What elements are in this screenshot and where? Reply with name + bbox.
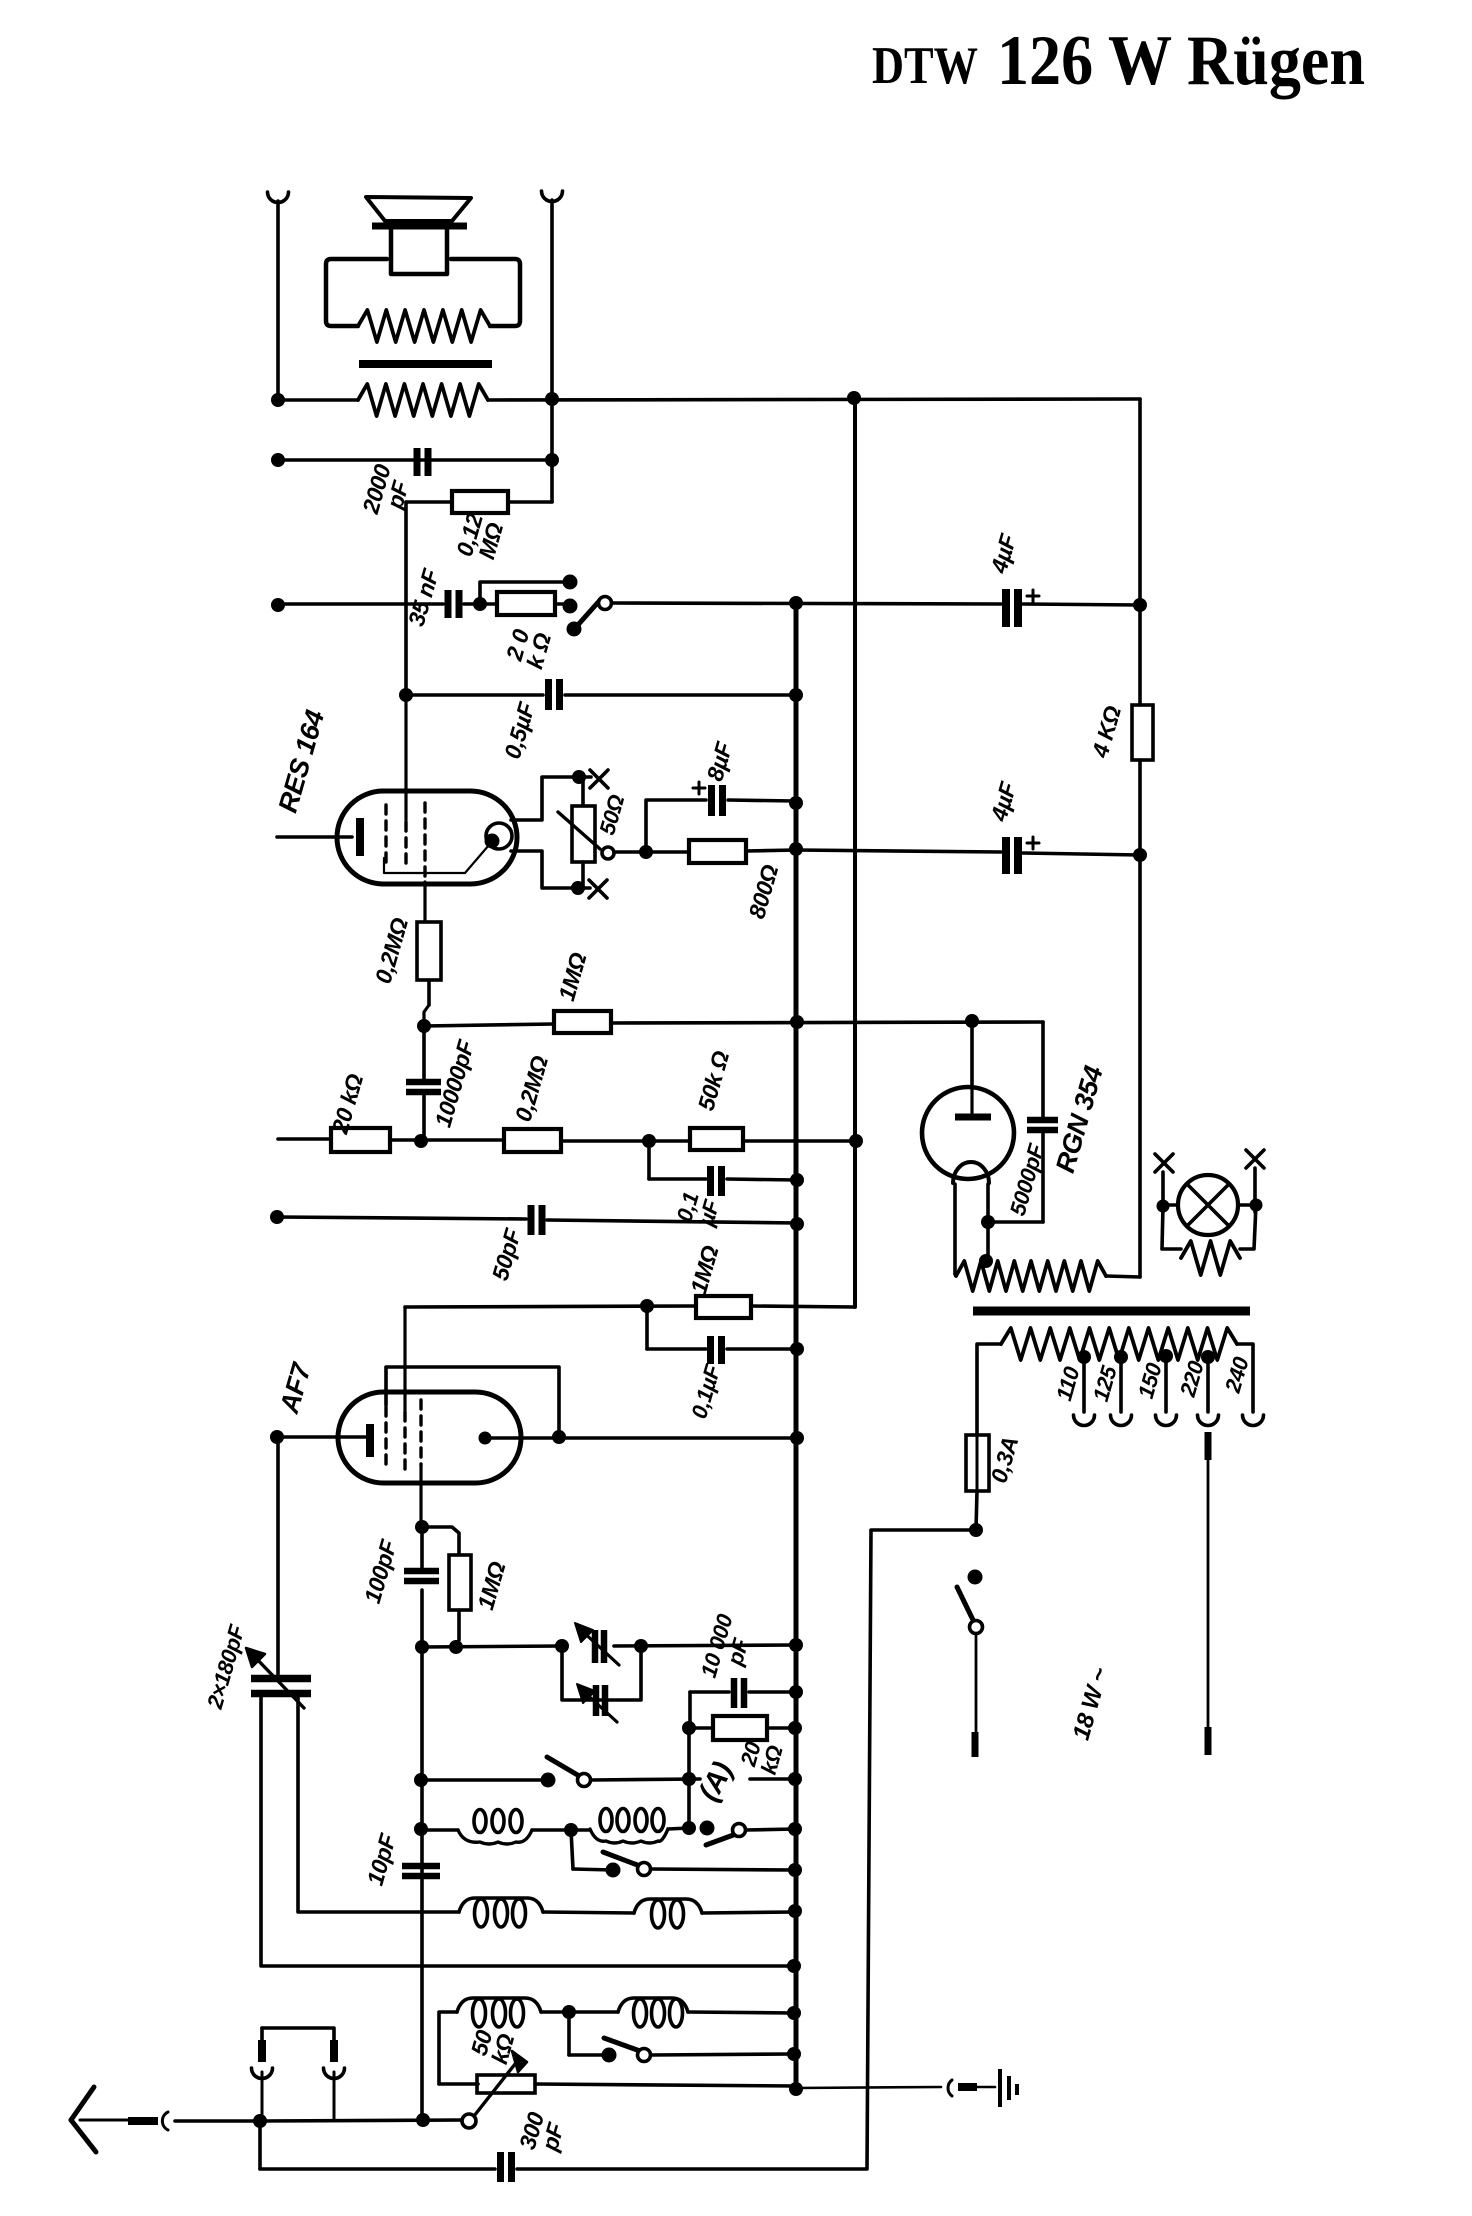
node L2 [552, 1430, 566, 1444]
trimmer capacitor C-osc1 [575, 1623, 619, 1665]
wire osc row [422, 1645, 796, 1647]
label 300pF [514, 2109, 570, 2158]
wire bypass [480, 582, 563, 604]
label 150 [1133, 1359, 1167, 1401]
jack (A) [693, 1757, 739, 1806]
x-mark lamp right [1246, 1150, 1264, 1168]
tube RGN354 [922, 1087, 1014, 1179]
node G4 [1133, 848, 1147, 862]
coil L5 [457, 1998, 541, 2027]
label 0.5uF [499, 699, 540, 762]
tap 220 [1198, 1350, 1219, 1426]
trimmer loop [562, 1646, 641, 1700]
resistor 1MOhm cathode [422, 1527, 471, 1647]
node U1 [969, 1523, 983, 1537]
label 20kOhm avc [326, 1071, 368, 1138]
wire wiper to cathode net [614, 850, 689, 854]
label 2x180pF [202, 1622, 250, 1713]
label 10000pF feedback [696, 1610, 759, 1686]
node G1 [639, 845, 653, 859]
wire feedback left leg [688, 1692, 692, 1728]
node M1 [415, 1520, 429, 1534]
wire B plus riser [853, 398, 857, 1307]
node C1 [271, 598, 285, 612]
node Q3 [787, 2047, 801, 2061]
transformer primary winding [358, 310, 490, 342]
wire avc row [278, 1139, 856, 1141]
label 50Ohm [594, 792, 629, 838]
node L3 [790, 1431, 804, 1445]
wire pickup row [421, 1779, 795, 1780]
contact D2 [563, 599, 578, 614]
label 2000pF [357, 461, 417, 523]
wire antenna row [260, 2120, 462, 2121]
wire 0.5uF row [406, 693, 796, 697]
RES164 filament link [384, 845, 489, 873]
label 125 [1088, 1362, 1122, 1404]
label AF7 [274, 1358, 317, 1417]
potentiometer 50Ohm hum [558, 777, 614, 888]
wire tone to bus [612, 603, 1001, 604]
label 4uF upper [985, 530, 1039, 602]
transformer core [359, 360, 492, 368]
capacitor 2000pF [417, 448, 428, 476]
RES164 anode dot [485, 834, 500, 849]
node O3 [682, 1821, 696, 1835]
wire band row [421, 1828, 795, 1830]
earth plug [948, 2080, 995, 2096]
lamp shunt resistor [1162, 1205, 1256, 1275]
label 220 [1175, 1357, 1209, 1400]
label 800Ohm [743, 862, 783, 922]
label 240 [1220, 1353, 1254, 1396]
node F2 [571, 881, 585, 895]
trimmer capacitor C-osc2 [577, 1684, 617, 1722]
switch S2 pickup [541, 1757, 591, 1788]
switch S4 tap [603, 1852, 795, 1878]
output transformer box [326, 259, 520, 326]
resistor 4kOhm [1132, 705, 1153, 760]
label 50pF [487, 1225, 527, 1283]
AF7 grid2 lead [403, 1307, 406, 1470]
wire RES164 filament top [511, 777, 591, 820]
phone jack right [262, 2028, 345, 2120]
label 0.1uF second [686, 1361, 725, 1421]
resistor 800Ohm [689, 840, 796, 863]
node V1 [1157, 1200, 1170, 1213]
resistor 1MOhm grid leak [696, 1296, 751, 1318]
resistor 20kOhm feedback [689, 1716, 795, 1740]
node O5 [788, 1863, 802, 1877]
RES164 grid1 dashed [384, 805, 387, 866]
potentiometer 50kOhm regen [439, 2051, 795, 2128]
wire tone row [278, 602, 480, 606]
label 0.12MOhm [451, 510, 509, 565]
label 50kOhm regen [465, 2025, 519, 2067]
capacitor 35nF [448, 590, 459, 618]
wire ground row [261, 1697, 794, 1966]
capacitor 0.1uF second [647, 1306, 797, 1364]
node A1 [271, 393, 285, 407]
node O1 [414, 1822, 428, 1836]
node N2 [682, 1772, 696, 1786]
contact D1 [563, 575, 578, 590]
node J1 [270, 1210, 284, 1224]
switch S6 mains [957, 1570, 983, 1634]
node H2 [790, 1015, 804, 1029]
node G3 [789, 842, 803, 856]
title DTW 126 W Ruegen [872, 22, 1365, 100]
label 110 [1051, 1363, 1085, 1403]
node O4 [788, 1822, 802, 1836]
label 0.1uF first [672, 1189, 725, 1230]
RES164 cathode [277, 818, 360, 856]
resistor 0.2MOhm g3 [417, 922, 441, 1026]
wire det coil row [439, 2012, 794, 2084]
node B1 [271, 453, 285, 467]
dial lamp [1169, 1175, 1250, 1235]
wire 1M row [424, 1022, 1043, 1026]
x-mark lamp left [1155, 1154, 1173, 1172]
node B2 [545, 453, 559, 467]
node Q1 [562, 2005, 576, 2019]
field coil / secondary winding [358, 384, 488, 416]
ground symbol [1000, 2069, 1017, 2107]
coil L4 [634, 1899, 702, 1928]
node I2 [642, 1134, 656, 1148]
tube AF7 envelope [338, 1392, 521, 1483]
svg-text:DTW: DTW [872, 37, 978, 95]
node F1 [572, 770, 586, 784]
node A2 [545, 392, 559, 406]
node N3 [788, 1772, 802, 1786]
node T3 [981, 1215, 995, 1229]
label 1MOhm coupling [553, 949, 591, 1003]
lamp leads upper [1163, 1168, 1255, 1212]
resistor 0.2MOhm avc [504, 1129, 561, 1152]
capacitor 0.5uF [549, 679, 560, 710]
wire A link vertical [687, 1728, 691, 1828]
RES164 grid3 dashed [423, 803, 426, 922]
AF7 grid bracket [386, 1367, 559, 1470]
coil L6 [618, 1998, 688, 2027]
node M4 [555, 1639, 569, 1653]
node E1 [399, 688, 413, 702]
capacitor 4uF upper [1006, 589, 1018, 627]
tap 150 [1156, 1349, 1177, 1426]
node N1 [414, 1773, 428, 1787]
wire tap drop [571, 1830, 613, 1870]
wire ant coil row [298, 1697, 795, 1913]
fuse 0.3A [966, 1435, 989, 1530]
label 4uF lower [985, 778, 1039, 849]
label 10pF [362, 1830, 402, 1888]
terminal T1 (speaker left) [268, 192, 289, 400]
label 50kOhm [693, 1048, 735, 1114]
AF7 anode [479, 1432, 798, 1445]
node E2 [789, 688, 803, 702]
wire earth link [796, 2087, 941, 2088]
switch S3 band [700, 1821, 746, 1846]
wire right rail [1138, 399, 1142, 1277]
node S2 [416, 2113, 430, 2127]
resistor 20kOhm tone [480, 592, 563, 615]
node C2 [473, 597, 487, 611]
RGN354 filament leads [955, 1184, 988, 1274]
resistor 50kOhm [690, 1128, 743, 1150]
tap 110 [1074, 1350, 1095, 1426]
AF7 cathode [277, 1424, 370, 1457]
node C4 [1133, 598, 1147, 612]
variable capacitor 2x180pF [246, 1439, 311, 1708]
coil L3 [459, 1898, 543, 1927]
wire 4uF to rail [1023, 604, 1140, 605]
mains pin right [1205, 1432, 1212, 1755]
label 4kOhm [1086, 703, 1126, 761]
RGN354 filament arc [953, 1162, 989, 1183]
node G2 [789, 796, 803, 810]
label 100pF [359, 1536, 402, 1606]
speaker LS [366, 197, 471, 274]
label 18W [1068, 1664, 1114, 1743]
node Q2 [787, 2006, 801, 2020]
x-mark F1 [590, 770, 608, 788]
node P2 [787, 1959, 801, 1973]
node K1 [640, 1299, 654, 1313]
wire det tap drop [569, 2012, 609, 2055]
resistor 0.12MOhm [452, 491, 508, 513]
node C3 [789, 596, 803, 610]
capacitor 4uF lower [796, 837, 1140, 874]
node I3 [849, 1134, 863, 1148]
node P1 [788, 1904, 802, 1918]
node H1 [417, 1019, 431, 1033]
terminal T2 (speaker right) [542, 191, 563, 460]
transformer core bar [973, 1307, 1250, 1316]
node S1 [253, 2114, 267, 2128]
capacitor 10pF [402, 1866, 440, 1876]
node K2 [790, 1342, 804, 1356]
label 0.3A [985, 1434, 1023, 1486]
node I1 [414, 1134, 428, 1148]
label 8uF [693, 738, 738, 794]
wire af7 g2 column [420, 1647, 424, 2120]
tube RES164 envelope [337, 791, 517, 884]
label 1MOhm grid leak [685, 1242, 723, 1296]
resistor 1MOhm coupling [554, 1011, 611, 1033]
capacitor 0.1uF first [649, 1141, 797, 1196]
mains pin left [975, 1634, 976, 1757]
coil L1 [458, 1810, 532, 1845]
label RGN354 [1050, 1063, 1109, 1177]
wire top rail [278, 399, 1140, 400]
tap 240 [1243, 1415, 1264, 1426]
node M8 [682, 1721, 696, 1735]
node O2 [564, 1823, 578, 1837]
label 20kOhm tone [500, 624, 556, 672]
capacitor 50pF [531, 1205, 542, 1235]
label RES164 [273, 707, 331, 816]
coil L2 [590, 1809, 668, 1844]
heater winding [955, 1261, 1140, 1291]
wire chassis bus [794, 603, 799, 2089]
node V2 [1250, 1199, 1263, 1212]
node H3 [965, 1014, 979, 1028]
wire antenna lead [175, 2119, 253, 2123]
label 0.2MOhm avc [510, 1053, 553, 1125]
label 20kOhm feedback [735, 1737, 788, 1778]
capacitor 10000pF feedback [690, 1678, 796, 1708]
wire hum line [278, 458, 552, 462]
label 1MOhm cathode [472, 1558, 510, 1612]
capacitor 10000pF [406, 1026, 441, 1141]
node M7 [789, 1685, 803, 1699]
tap 125 [1111, 1350, 1132, 1426]
capacitor 300pF [260, 2121, 866, 2182]
capacitor 8uF [646, 785, 796, 852]
capacitor 5000pF [988, 1120, 1058, 1222]
node A3 [847, 391, 861, 405]
svg-text:126 W Rügen: 126 W Rügen [997, 22, 1365, 100]
switch S1 tone [567, 597, 612, 637]
node T4 [979, 1254, 993, 1268]
node M5 [634, 1639, 648, 1653]
node I4 [790, 1173, 804, 1187]
x-mark F2 [589, 880, 607, 898]
resistor 20kOhm avc [331, 1128, 390, 1152]
node L1 [270, 1430, 284, 1444]
node R1 [789, 2082, 803, 2096]
node M3 [449, 1640, 463, 1654]
wire grid leak row [405, 1306, 854, 1307]
node J2 [790, 1217, 804, 1231]
node M9 [788, 1721, 802, 1735]
switch S5 det [602, 2038, 795, 2063]
label 35nF [403, 565, 444, 629]
wire 0.12M link [406, 460, 552, 695]
label 5000pF [1005, 1140, 1049, 1218]
node M2 [415, 1640, 429, 1654]
wire 50pF row [277, 1217, 797, 1223]
RES164 pinch circle [486, 823, 512, 849]
wire rgn anode link [972, 1022, 1043, 1117]
phone jack left [252, 2028, 273, 2121]
AF7 grid3 [419, 1400, 422, 1527]
antenna symbol [71, 2087, 168, 2152]
node M6 [789, 1638, 803, 1652]
label 10000pF [430, 1036, 480, 1130]
RES164 grid2 lead [404, 695, 407, 866]
label 0.2MOhm g3 [370, 915, 413, 987]
wire RES164 filament bottom [511, 851, 590, 888]
capacitor 100pF [404, 1527, 439, 1647]
wire mains left link [867, 1530, 976, 2169]
primary winding [977, 1328, 1253, 1435]
